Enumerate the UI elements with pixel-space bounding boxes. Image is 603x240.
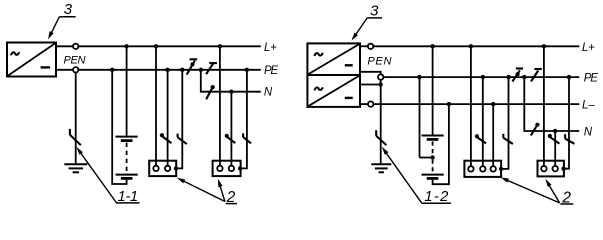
terminal PEN circle (left) [73,67,78,72]
node PE socket1 N tap (left) [165,68,169,72]
node L+ socket1 tap (left) [154,44,158,48]
wire L+ bus (left) [79,45,261,47]
socket S4 terminal circle a [541,166,546,171]
node socket S3 earth terminal [499,167,503,171]
arrowhead 2 at socket S3 (right) [501,177,509,182]
wire socket1 L- feed (right) [492,104,494,166]
node PEN junction (right) [379,82,383,86]
leader 1-2 to earthing conductor [385,151,422,203]
battery GB2 top short plate [427,138,439,141]
battery GB2 bottom short plate [427,177,439,180]
link on N conductor (slash+dot, right) [531,123,540,136]
svg-text:3: 3 [64,1,73,18]
wire socket2 earth feed (left) [241,70,247,169]
label 3 (right) [370,3,379,20]
converter U1 AC tilde [11,52,19,55]
node L- battery return (right) [447,102,451,106]
svg-text:L+: L+ [264,42,277,54]
node PE socket1 earth tap (left) [180,68,184,72]
arrowhead 2 at socket S4 (right) [545,179,551,187]
wire socket2 N feed (left) [230,92,232,166]
disconnect on socket1 earth feed (tick+slash, right) [503,134,513,144]
converter U2 upper DC minus [345,64,353,66]
wire battery feed from L+ (left) [126,46,128,135]
wire socket1 earth feed (left) [176,70,182,169]
socket S1 terminal circle b [165,166,170,171]
switch on socket2 N feed (dot+slash, left) [225,134,236,143]
label 3 (left) [64,1,73,18]
earth electrode 1-2 (ground symbol) [371,164,391,172]
leader 2 to socket S3 (right) [506,180,560,203]
node PE battery return (left) [110,68,114,72]
svg-text:PE: PE [264,65,279,77]
converter U1 diagonal [8,43,56,76]
wire L- bus (right) [374,103,580,105]
node socket S4 earth terminal [561,167,565,171]
svg-text:L+: L+ [582,42,595,54]
arrowhead 2 at socket S1 (left) [177,178,185,184]
label 2 (right) [561,190,571,207]
svg-text:PEN: PEN [64,54,86,66]
terminal L+ stub (right) [360,45,368,47]
link 2 on PE (slash+bar, right) [531,69,542,82]
wire socket2 N feed (right) [554,131,556,166]
terminal L+ circle (right) [368,44,373,49]
node PE-to-N drop (right) [522,75,526,79]
wire PE bus (left) [79,69,261,71]
arrowhead 2 at socket S2 (left) [218,179,223,188]
wire socket1 earth feed (right) [502,77,509,169]
disconnect on socket2 earth feed (tick+slash, right) [565,134,574,144]
terminal L+ stub (left) [56,45,73,47]
wire socket2 L+ feed (left) [219,46,221,166]
arrowhead 1-1 [76,147,83,155]
leader 2 to socket S4 (right) [548,183,560,203]
terminal L- stub (right) [360,103,368,105]
label 1-1 [118,189,139,205]
wire battery feed from L+ (right) [432,46,434,134]
node PE-to-N drop (left) [199,68,203,72]
label PEN (left) [64,54,86,66]
label N (right) [584,126,593,138]
svg-text:L–: L– [582,99,595,111]
battery GB1 top long plate [116,136,138,138]
node L+ battery tap (right) [430,44,434,48]
socket outlet box S3 (right) [464,161,501,177]
terminal L- circle (right) [368,101,373,106]
leader to converter U2 [355,18,368,37]
terminal PEN wire lower (right) [360,84,381,86]
terminal PEN stub (left) [56,69,73,71]
earthing conductor (right) [380,80,382,165]
label 1-1 underline [116,202,140,204]
battery GB2 top long plate [422,135,444,137]
wire socket2 L+ feed (right) [543,46,545,166]
leader 2 to socket S1 (left) [182,180,225,201]
node socket S1 earth terminal [174,166,178,170]
wire L+ bus (right) [373,45,579,47]
label L+ (right) [582,42,595,54]
label PEN (right) [367,56,391,68]
svg-text:PE: PE [584,72,599,84]
label N (left) [264,87,273,99]
wire socket1 L+ feed (right) [470,46,472,166]
svg-text:N: N [584,126,593,138]
svg-text:N: N [264,87,273,99]
node PE battery midpoint tap (right) [417,75,421,79]
label PE (right) [584,72,599,84]
node N socket2 tap (right) [553,129,557,133]
converter U2 lower diagonal [308,76,359,107]
socket S2 terminal circle a [217,166,222,171]
earthing conductor (left) [75,73,77,165]
leader to converter U1 [50,17,59,36]
label L- (right) [582,99,595,111]
wire socket2 earth feed (right) [564,77,569,169]
socket outlet box S4 (right) [538,161,564,177]
link 1 on PE (slash+dot+bar, right) [512,69,523,82]
label L+ (left) [264,42,277,54]
converter U1 (AC/DC) box [7,43,56,77]
socket S2 terminal circle b [229,166,234,171]
socket outlet box S2 (left) [213,161,241,176]
converter U2 upper AC tilde [314,53,322,56]
terminal PEN wire upper (right) [360,72,381,75]
label 2 underline (left) [226,203,237,205]
converter U1 DC minus [41,66,51,68]
link on N conductor (slash+dot, left) [206,85,215,99]
socket S3 terminal circle b [480,166,485,171]
node L+ socket1 tap (right) [469,44,473,48]
svg-text:PEN: PEN [367,56,391,68]
disconnect on socket2 earth feed (tick+slash, left) [243,133,251,143]
wire PE-to-N drop (left) [201,70,261,92]
arrowhead at converter U2 [352,33,359,41]
socket outlet box S1 (left) [149,161,176,176]
terminal L+ circle (left) [73,44,78,49]
node L+ battery tap (left) [124,44,128,48]
node battery midpoint (right) [430,155,434,159]
label 1-2 underline [422,202,451,204]
wire PE-to-N drop (right) [524,77,579,131]
socket S3 terminal circle c [491,166,496,171]
node L+ socket2 tap (left) [218,44,222,48]
node PE socket2 earth tap (left) [245,68,249,72]
wire socket1 N feed (left) [167,70,169,166]
wire socket1 N feed (right) [482,77,484,166]
leader 1-1 to earthing conductor [80,151,117,203]
terminal PEN circle (right) [378,74,383,79]
battery GB1 bottom long plate [116,174,138,176]
socket S4 terminal circle b [553,166,558,171]
disconnect on socket1 earth feed (tick+slash, left) [178,134,187,144]
node N socket2 tap (left) [229,90,233,94]
battery GB2 lower dashed cells [432,160,434,173]
socket S3 terminal circle a [468,166,473,171]
wire battery bottom return to L- (right) [433,104,449,184]
wire battery bottom return (left) [112,70,126,184]
disconnect on earthing conductor (tick+slash, right) [376,130,386,145]
arrowhead 1-2 [382,147,389,155]
converter U2 lower DC minus [345,97,353,99]
link 1 on PE (slash+dot+bar, left) [187,59,198,74]
converter U2 divider [307,74,360,76]
node L+ socket2 tap (right) [542,44,546,48]
switch on socket1 N feed (dot+slash, left) [160,133,172,143]
battery GB1 dashed cells [126,143,128,173]
label 3 underline [59,16,75,18]
label 1-2 [424,189,449,205]
battery GB2 bottom long plate [422,174,444,176]
node L- socket1 tap (right) [491,102,495,106]
label PE (left) [264,65,279,77]
switch on socket1 N feed (dot+slash, right) [475,134,486,143]
socket S1 terminal circle a [153,166,158,171]
node PE socket2 earth tap (right) [567,75,571,79]
battery GB1 bottom short plate [121,177,133,180]
leader 2 to socket S2 (left) [220,184,225,201]
battery GB1 top short plate [121,139,133,142]
node socket S2 earth terminal [238,166,242,170]
label 2 (left) [226,189,236,206]
label 3 underline (right) [367,17,382,19]
node PE socket1 earth tap (right) [506,75,510,79]
link 2 on PE (slash+bar, left) [206,62,217,74]
label 2 underline (right) [560,203,573,205]
wire battery midpoint to PE drop (right) [420,157,433,159]
battery GB2 upper dashed cells [432,141,434,155]
converter U2 (two stacked AC/DC units) outer box [307,43,360,107]
converter U2 lower AC tilde [314,87,322,90]
wire PE bus (right) [383,76,579,78]
arrowhead at converter U1 [48,31,54,39]
switch on socket2 N feed (dot+slash, right) [548,134,560,144]
wire socket1 L+ feed (left) [155,46,157,166]
converter U2 upper diagonal [308,44,359,74]
earth electrode 1-1 (ground symbol) [64,164,87,172]
wire PE to battery midpoint (right) [419,77,421,157]
disconnect on earthing conductor (tick+slash, left) [70,129,81,145]
node PE socket1 N tap (right) [481,75,485,79]
